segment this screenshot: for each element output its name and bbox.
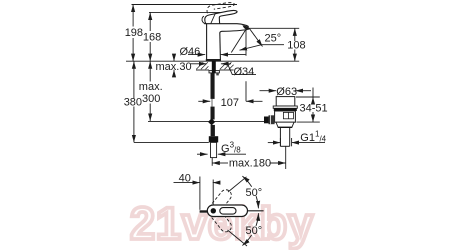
svg-text:max.: max. (139, 81, 163, 93)
svg-text:max.180: max.180 (229, 157, 271, 169)
svg-text:300: 300 (142, 93, 160, 105)
svg-text:40: 40 (179, 173, 191, 185)
svg-text:108: 108 (287, 40, 305, 52)
svg-text:Ø46: Ø46 (180, 46, 201, 58)
svg-text:max.30: max.30 (156, 61, 192, 73)
svg-text:25°: 25° (265, 32, 282, 44)
svg-text:50°: 50° (246, 225, 263, 237)
svg-text:34-51: 34-51 (300, 102, 328, 114)
svg-text:50°: 50° (246, 187, 263, 199)
svg-text:380: 380 (124, 97, 142, 109)
svg-text:168: 168 (143, 32, 161, 44)
svg-text:107: 107 (221, 97, 239, 109)
svg-text:Ø34: Ø34 (234, 66, 255, 78)
svg-text:198: 198 (125, 27, 143, 39)
svg-text:Ø63: Ø63 (276, 86, 297, 98)
